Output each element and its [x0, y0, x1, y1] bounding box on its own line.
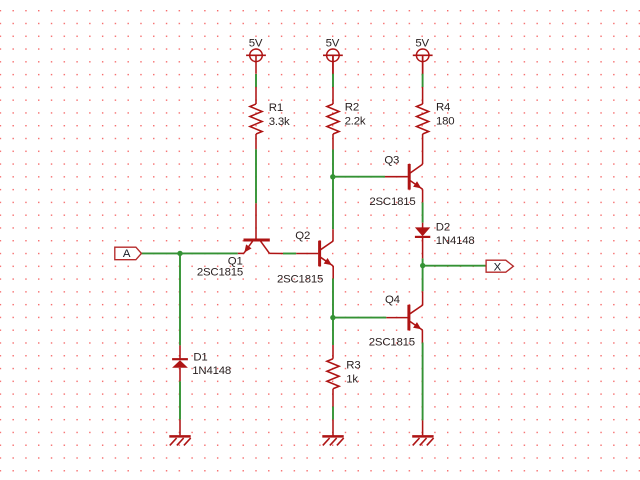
svg-text:180: 180 — [436, 116, 454, 128]
svg-text:5V: 5V — [326, 38, 340, 50]
svg-text:R2: R2 — [345, 102, 359, 114]
svg-text:Q3: Q3 — [384, 155, 399, 167]
svg-text:X: X — [494, 261, 502, 273]
svg-text:1k: 1k — [346, 373, 358, 385]
svg-text:2.2k: 2.2k — [345, 116, 366, 128]
svg-text:2SC1815: 2SC1815 — [197, 267, 243, 279]
svg-text:1N4148: 1N4148 — [192, 365, 231, 377]
svg-text:D2: D2 — [436, 221, 450, 233]
svg-text:5V: 5V — [249, 38, 263, 50]
svg-text:5V: 5V — [415, 38, 429, 50]
svg-text:Q1: Q1 — [228, 255, 243, 267]
svg-text:1N4148: 1N4148 — [436, 235, 475, 247]
svg-text:A: A — [123, 248, 131, 260]
svg-text:R4: R4 — [436, 102, 450, 114]
svg-text:3.3k: 3.3k — [269, 116, 290, 128]
svg-text:R3: R3 — [346, 360, 360, 372]
svg-text:2SC1815: 2SC1815 — [369, 337, 415, 349]
svg-text:2SC1815: 2SC1815 — [369, 196, 415, 208]
svg-text:Q4: Q4 — [385, 294, 400, 306]
svg-text:R1: R1 — [269, 102, 283, 114]
svg-text:Q2: Q2 — [295, 230, 310, 242]
svg-text:2SC1815: 2SC1815 — [277, 273, 323, 285]
svg-text:D1: D1 — [193, 352, 207, 364]
